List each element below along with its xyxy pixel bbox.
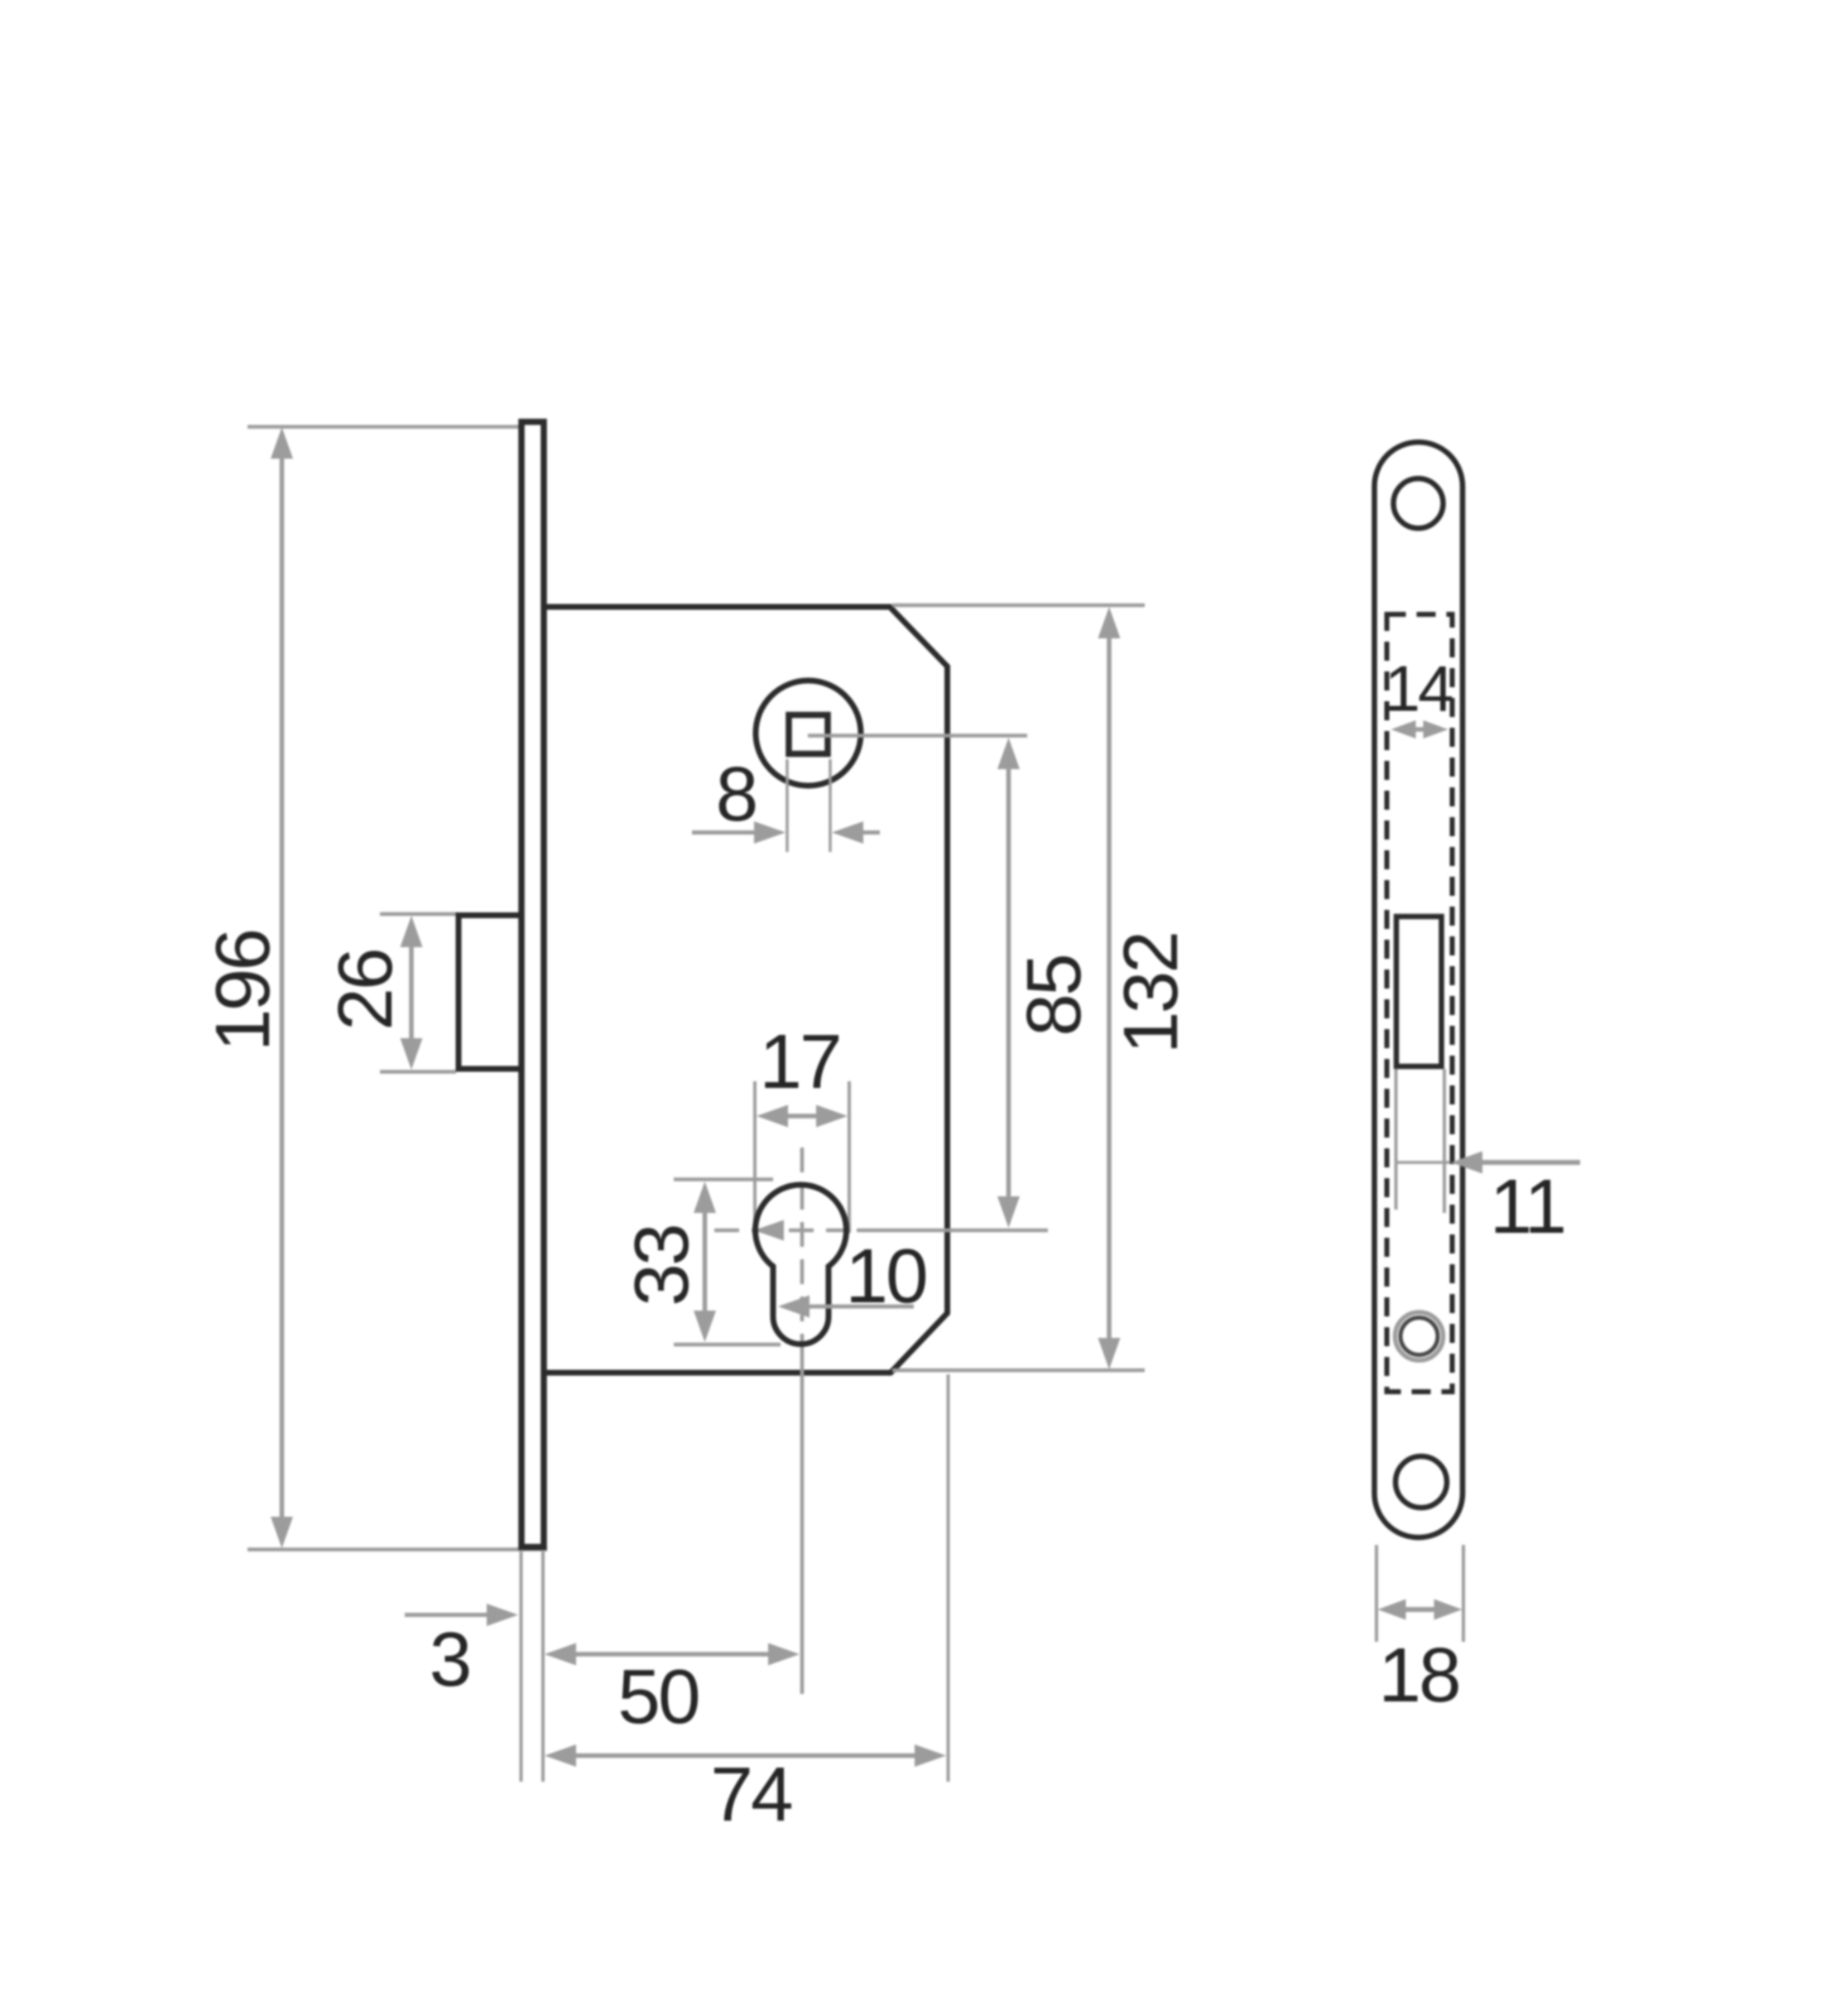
dimension 132 top extension line — [892, 604, 1145, 608]
cylinder screw bushing inner ring — [1400, 1318, 1438, 1355]
dimension 196 bottom extension line — [247, 1547, 547, 1552]
dimension 33 top extension line — [674, 1177, 773, 1181]
dimension 17 double arrow — [778, 1114, 826, 1119]
cylinder horizontal centerline (dashed) — [714, 1229, 857, 1233]
dimension 17 extension lines — [753, 1081, 757, 1233]
dimension 85 line with arrows — [1006, 762, 1011, 1205]
spindle square hole — [789, 715, 828, 754]
dimension 33 line with arrows — [703, 1205, 708, 1318]
dimension 10 arrow line — [807, 1305, 914, 1309]
svg-text:26: 26 — [322, 950, 408, 1030]
svg-text:74: 74 — [710, 1751, 791, 1837]
top screw hole — [1394, 479, 1444, 528]
dimension 18 extension lines — [1375, 1545, 1378, 1642]
cylinder screw bushing outer ring — [1396, 1312, 1444, 1360]
svg-text:196: 196 — [199, 931, 286, 1051]
dimension 132 bottom extension line — [892, 1369, 1145, 1373]
dimension 8 extension lines — [785, 759, 789, 852]
horizontal centerline solid extension (for 85) — [857, 1229, 1048, 1233]
svg-text:10: 10 — [845, 1233, 926, 1319]
faceplate left edge extension line below — [520, 1552, 523, 1782]
svg-text:132: 132 — [1107, 933, 1194, 1054]
dimension 11 arrow — [1451, 1152, 1482, 1174]
dimension 8 arrow lines — [692, 830, 757, 835]
dimension 74 line with arrows — [568, 1754, 923, 1759]
svg-text:3: 3 — [430, 1616, 470, 1702]
dimension 196 top extension line — [247, 425, 519, 429]
faceplate side view — [521, 422, 544, 1547]
svg-text:17: 17 — [759, 1018, 839, 1104]
dimension 85 top extension line from spindle center — [808, 734, 1027, 738]
bottom screw hole — [1396, 1456, 1447, 1508]
dimension 11 thin line — [1396, 1161, 1451, 1164]
dimension 26 top extension line — [380, 912, 456, 917]
faceplate front view outline — [1375, 442, 1463, 1537]
dimension 11 extension lines — [1395, 1069, 1398, 1210]
dimension 26 bottom extension line — [380, 1070, 456, 1074]
cylinder keyhole — [755, 1185, 846, 1345]
dimension 196 line with arrows — [280, 451, 285, 1525]
latch opening — [1396, 917, 1442, 1066]
body right edge extension line below — [947, 1374, 950, 1782]
svg-text:85: 85 — [1011, 955, 1097, 1036]
dimension 26 line with arrows — [409, 940, 414, 1045]
cylinder vertical centerline (dashed) — [800, 1148, 805, 1341]
svg-text:18: 18 — [1378, 1632, 1458, 1718]
svg-text:14: 14 — [1385, 652, 1453, 725]
spindle hub circle — [756, 681, 861, 786]
dimension 50 line with arrows — [568, 1652, 776, 1657]
svg-text:8: 8 — [716, 751, 757, 837]
svg-text:50: 50 — [617, 1653, 699, 1739]
lock body outline — [544, 607, 948, 1373]
faceplate right edge extension line below — [541, 1552, 545, 1782]
cylinder centerline extension below (for 50) — [800, 1341, 805, 1694]
svg-text:33: 33 — [618, 1225, 704, 1306]
dimension 132 line with arrows — [1107, 631, 1112, 1346]
svg-text:11: 11 — [1490, 1163, 1565, 1249]
mortise pocket dashed outline — [1387, 614, 1453, 1392]
dimension 33 bottom extension line — [674, 1343, 781, 1347]
centerline left arrowhead — [754, 1220, 784, 1241]
latch bolt — [459, 916, 521, 1070]
dimension 3 arrow line — [405, 1613, 490, 1617]
dimension 18 double arrow — [1400, 1607, 1439, 1612]
dimension 14 double arrow — [1407, 727, 1432, 732]
